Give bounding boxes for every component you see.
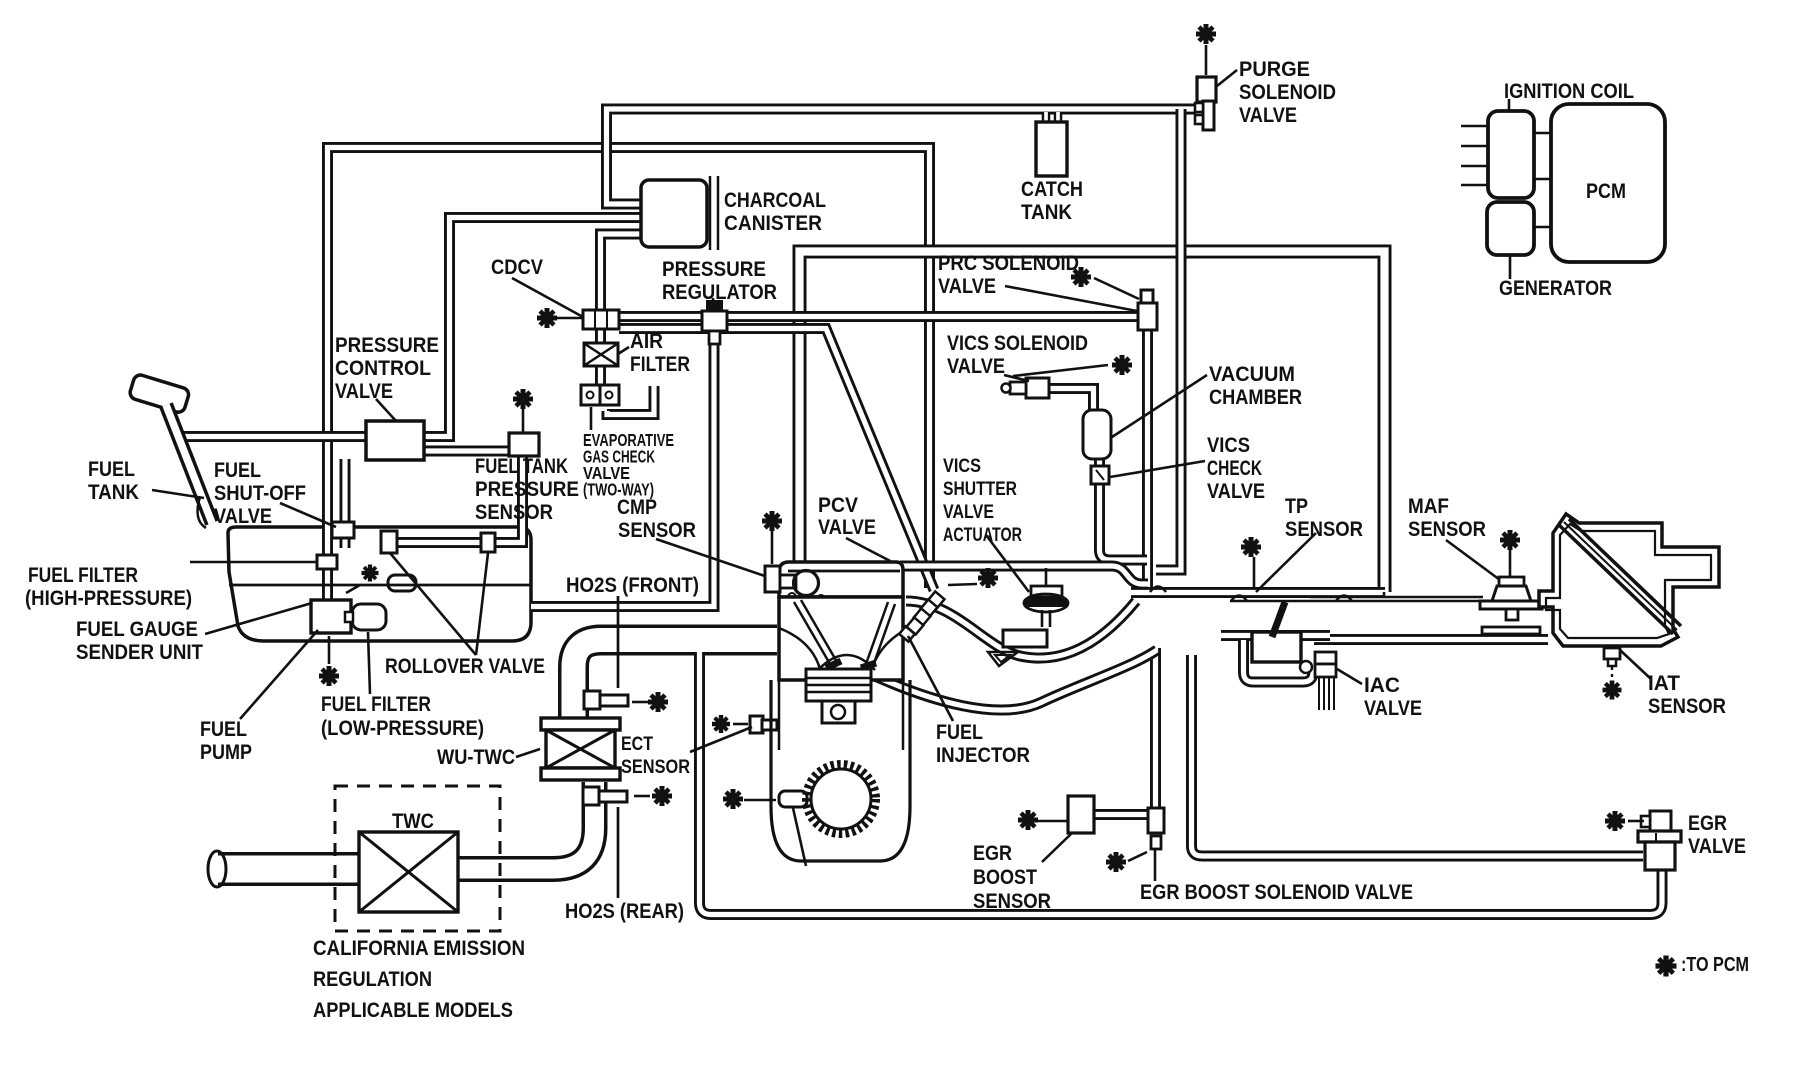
svg-text:SENSOR: SENSOR [1408, 517, 1486, 541]
svg-text:EGR: EGR [1688, 811, 1727, 835]
svg-text:EGR: EGR [973, 841, 1012, 865]
svg-text:TANK: TANK [1021, 200, 1072, 224]
svg-text:PCV: PCV [818, 493, 859, 517]
svg-text:SENSOR: SENSOR [1285, 517, 1363, 541]
svg-text:SENSOR: SENSOR [618, 518, 696, 542]
svg-text:HO2S (REAR): HO2S (REAR) [565, 899, 684, 923]
svg-text:IGNITION COIL: IGNITION COIL [1504, 79, 1634, 103]
svg-text:MAF: MAF [1408, 494, 1449, 518]
svg-text:WU-TWC: WU-TWC [437, 745, 515, 769]
svg-text:(HIGH-PRESSURE): (HIGH-PRESSURE) [25, 586, 192, 610]
svg-text:CANISTER: CANISTER [724, 211, 822, 235]
svg-text:IAC: IAC [1364, 673, 1400, 697]
svg-text:ECT: ECT [621, 734, 653, 755]
svg-text:PCM: PCM [1586, 179, 1626, 203]
svg-text:AIR: AIR [630, 329, 663, 353]
svg-text:FUEL FILTER: FUEL FILTER [28, 563, 138, 587]
svg-text:IAT: IAT [1648, 671, 1680, 695]
svg-text:GENERATOR: GENERATOR [1499, 276, 1612, 300]
svg-text:VALVE: VALVE [947, 354, 1005, 378]
svg-text:PRESSURE: PRESSURE [662, 257, 766, 281]
svg-text:VACUUM: VACUUM [1209, 362, 1295, 386]
svg-text:SENSOR: SENSOR [973, 889, 1051, 913]
svg-text:PRESSURE: PRESSURE [335, 333, 439, 357]
svg-text:FUEL: FUEL [214, 458, 261, 482]
svg-text:CATCH: CATCH [1021, 177, 1083, 201]
svg-text:VALVE: VALVE [938, 274, 996, 298]
svg-text:CMP: CMP [617, 495, 657, 519]
svg-text:SENDER UNIT: SENDER UNIT [76, 640, 203, 664]
svg-text:CALIFORNIA EMISSION: CALIFORNIA EMISSION [313, 936, 525, 960]
svg-text:FUEL FILTER: FUEL FILTER [321, 692, 431, 716]
svg-text:HO2S (FRONT): HO2S (FRONT) [566, 573, 699, 597]
svg-text:TP: TP [1285, 494, 1308, 518]
svg-text:ACTUATOR: ACTUATOR [943, 525, 1022, 546]
svg-text:TWC: TWC [392, 809, 434, 833]
svg-text:SHUTTER: SHUTTER [943, 479, 1017, 500]
svg-text:(LOW-PRESSURE): (LOW-PRESSURE) [321, 716, 484, 740]
svg-text:BOOST: BOOST [973, 865, 1037, 889]
svg-text:PUMP: PUMP [200, 740, 252, 764]
svg-text:PRC SOLENOID: PRC SOLENOID [938, 251, 1079, 275]
svg-text:CHAMBER: CHAMBER [1209, 385, 1302, 409]
svg-text:APPLICABLE MODELS: APPLICABLE MODELS [313, 998, 513, 1022]
svg-text:VALVE: VALVE [943, 502, 994, 523]
svg-text:ROLLOVER VALVE: ROLLOVER VALVE [385, 654, 545, 678]
svg-text:SHUT-OFF: SHUT-OFF [214, 481, 306, 505]
svg-text:PURGE: PURGE [1239, 57, 1310, 81]
svg-text:VALVE: VALVE [818, 515, 876, 539]
svg-text:FILTER: FILTER [630, 352, 690, 376]
svg-text:VALVE: VALVE [335, 379, 393, 403]
svg-text:SOLENOID: SOLENOID [1239, 80, 1336, 104]
svg-text:CDCV: CDCV [491, 255, 544, 279]
svg-text:VICS: VICS [1207, 433, 1250, 457]
svg-text::TO PCM: :TO PCM [1681, 954, 1749, 976]
svg-text:VALVE: VALVE [214, 504, 272, 528]
svg-text:VALVE: VALVE [1239, 103, 1297, 127]
svg-text:VALVE: VALVE [1688, 834, 1746, 858]
svg-text:FUEL: FUEL [936, 720, 983, 744]
svg-text:PRESSURE: PRESSURE [475, 477, 579, 501]
svg-text:FUEL TANK: FUEL TANK [475, 454, 568, 478]
svg-text:VALVE: VALVE [1207, 479, 1265, 503]
svg-text:FUEL: FUEL [200, 717, 247, 741]
svg-text:VICS SOLENOID: VICS SOLENOID [947, 331, 1088, 355]
svg-text:CHECK: CHECK [1207, 456, 1262, 480]
svg-text:SENSOR: SENSOR [621, 757, 690, 778]
svg-text:VALVE: VALVE [1364, 696, 1422, 720]
svg-text:FUEL GAUGE: FUEL GAUGE [76, 617, 198, 641]
svg-text:REGULATION: REGULATION [313, 967, 432, 991]
svg-text:SENSOR: SENSOR [475, 500, 553, 524]
svg-text:TANK: TANK [88, 480, 139, 504]
svg-text:CONTROL: CONTROL [335, 356, 431, 380]
svg-text:VICS: VICS [943, 456, 981, 477]
svg-text:INJECTOR: INJECTOR [936, 743, 1030, 767]
svg-text:FUEL: FUEL [88, 457, 135, 481]
svg-text:SENSOR: SENSOR [1648, 694, 1726, 718]
svg-text:CHARCOAL: CHARCOAL [724, 188, 826, 212]
svg-text:EGR BOOST SOLENOID VALVE: EGR BOOST SOLENOID VALVE [1140, 880, 1413, 904]
svg-text:REGULATOR: REGULATOR [662, 280, 777, 304]
